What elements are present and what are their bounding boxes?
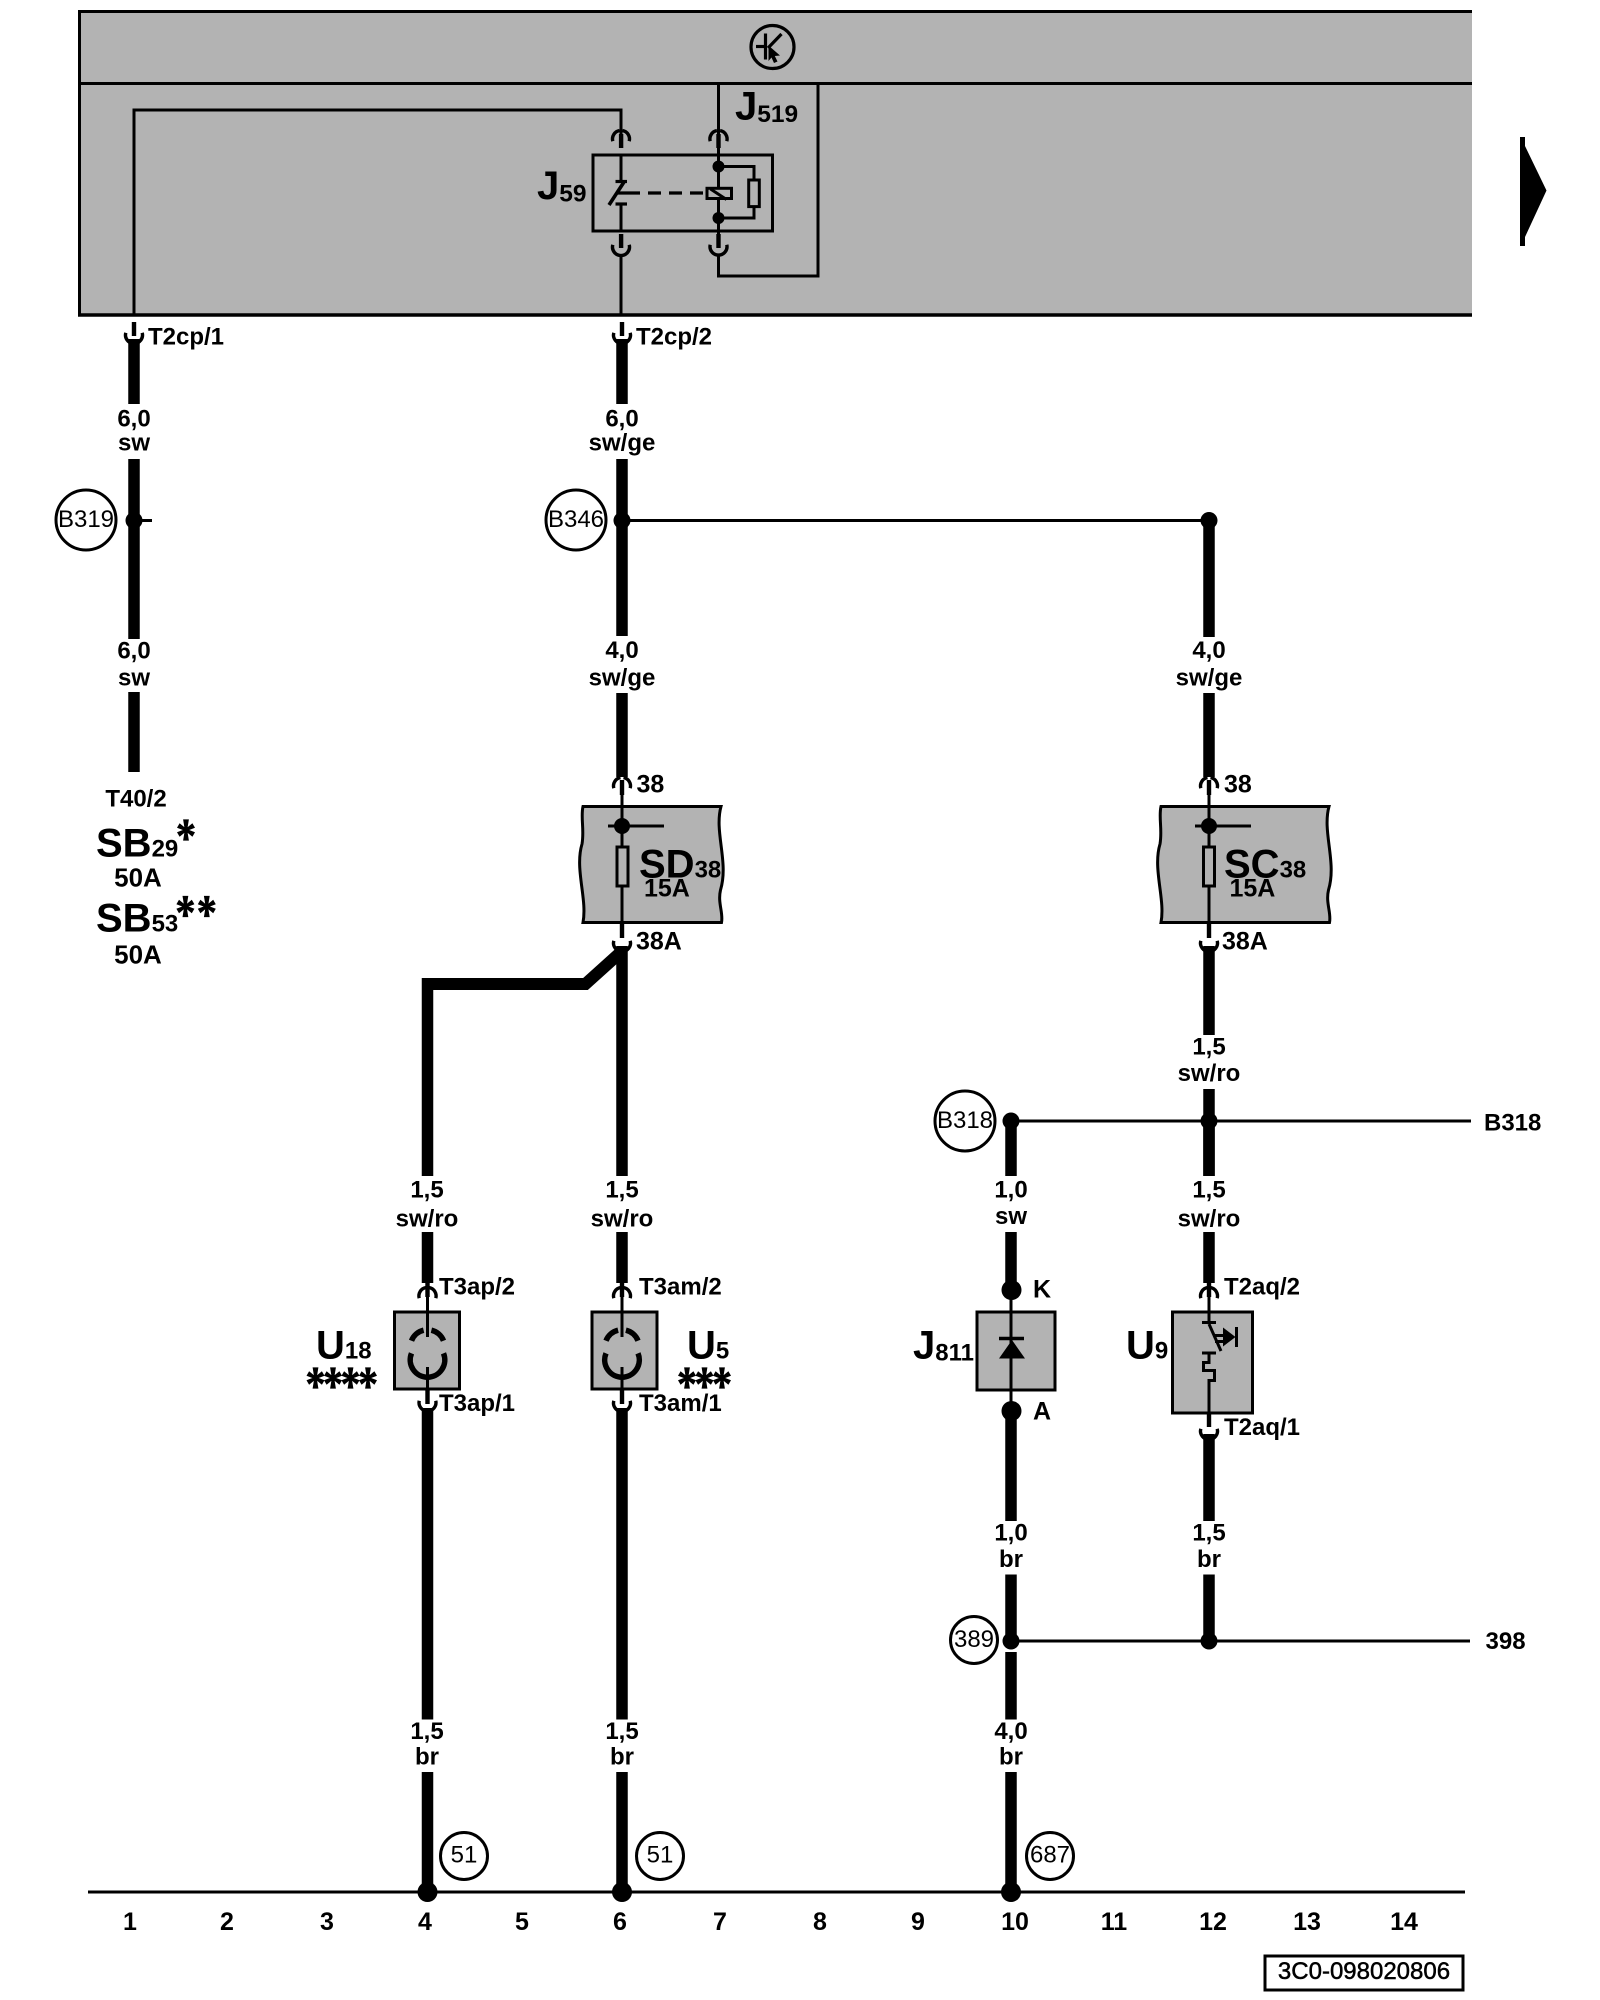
svg-text:sw/ge: sw/ge: [1176, 665, 1243, 692]
star marks: [177, 819, 195, 840]
svg-text:T2aq/1: T2aq/1: [1224, 1414, 1300, 1441]
svg-text:1: 1: [123, 1908, 137, 1936]
star marks: [678, 1367, 731, 1388]
wire 1,5 sw/ro (right column upper): [1203, 946, 1215, 1035]
fuse panel SC38: [1158, 807, 1332, 923]
diode J811 box: [977, 1312, 1055, 1390]
svg-text:A: A: [1033, 1398, 1051, 1426]
connection 389: [951, 1617, 998, 1664]
wire B318 across to right edge: [1011, 1120, 1471, 1123]
connector T2aq/1: [1201, 1413, 1301, 1441]
wire 6,0 sw (lower, left column): [128, 459, 140, 639]
panel divider line: [78, 82, 1472, 85]
connector T3am/1: [614, 1390, 722, 1417]
svg-text:1,5: 1,5: [1192, 1520, 1225, 1547]
svg-text:1,5: 1,5: [410, 1718, 443, 1745]
terminal 38A connector (SD38): [614, 923, 682, 956]
J519 enclosure outline (right side): [719, 84, 819, 277]
T2cp/1 connector: [126, 322, 225, 351]
svg-text:4,0: 4,0: [994, 1718, 1027, 1745]
svg-text:687: 687: [1030, 1842, 1070, 1869]
star marks: [307, 1367, 378, 1388]
pump motor U5 box: [592, 1312, 657, 1389]
wires down to motors: [422, 1232, 434, 1283]
wire J519 feed down to relay coil connector: [717, 84, 720, 136]
coil junction dots: [713, 161, 725, 173]
ground 51 (left): [441, 1833, 488, 1880]
relay switch contact: [609, 155, 627, 231]
svg-text:6: 6: [613, 1908, 627, 1936]
svg-text:T3am/1: T3am/1: [639, 1390, 722, 1417]
svg-text:51: 51: [647, 1842, 674, 1869]
svg-text:sw/ro: sw/ro: [396, 1206, 459, 1233]
wire 38A down (middle column): [616, 946, 628, 1176]
svg-text:T3ap/1: T3ap/1: [439, 1390, 515, 1417]
svg-text:398: 398: [1486, 1628, 1526, 1655]
connection B319: [56, 490, 116, 550]
wire B346 to right column: [622, 519, 1209, 522]
wire 389 node to right edge (398): [1011, 1640, 1470, 1643]
svg-text:12: 12: [1199, 1908, 1227, 1936]
svg-text:sw: sw: [118, 430, 150, 457]
connector pin at relay switch top: [613, 131, 630, 148]
svg-text:50A: 50A: [114, 863, 162, 893]
svg-text:13: 13: [1293, 1908, 1321, 1936]
svg-text:1,5: 1,5: [410, 1177, 443, 1204]
svg-text:sw/ge: sw/ge: [589, 430, 656, 457]
K symbol (bus icon): [751, 26, 794, 69]
svg-text:B346: B346: [548, 506, 604, 533]
svg-text:1,0: 1,0: [994, 1177, 1027, 1204]
coil shunt resistor: [719, 167, 755, 181]
terminal 38 connector (SD38): [614, 771, 665, 799]
svg-text:B319: B319: [58, 506, 114, 533]
connector T2aq/2: [1201, 1274, 1301, 1301]
svg-text:sw/ro: sw/ro: [1178, 1206, 1241, 1233]
U9 column: wire junction at B318 down to T2aq/2: [1203, 1121, 1215, 1176]
svg-text:br: br: [999, 1744, 1023, 1771]
pump motor U18 box: [395, 1312, 460, 1389]
svg-text:T3ap/2: T3ap/2: [439, 1274, 515, 1301]
connection B318: [935, 1091, 995, 1151]
svg-text:38: 38: [1224, 771, 1252, 799]
node A: [1002, 1401, 1022, 1421]
connector T3ap/2: [419, 1274, 515, 1301]
fuse panel SD38: [580, 807, 724, 923]
svg-text:B318: B318: [937, 1107, 993, 1134]
terminal 38 connector (SC38): [1201, 771, 1252, 799]
svg-text:SB29: SB29: [96, 822, 178, 866]
star marks: [176, 896, 215, 917]
svg-text:5: 5: [515, 1908, 529, 1936]
svg-text:6,0: 6,0: [605, 406, 638, 433]
svg-text:8: 8: [813, 1908, 827, 1936]
diode symbol: [999, 1337, 1024, 1341]
svg-text:51: 51: [451, 1842, 478, 1869]
svg-text:11: 11: [1101, 1908, 1128, 1936]
connector T3ap/1: [419, 1390, 515, 1417]
wire 1,0 sw (J811 column): [1005, 1121, 1017, 1176]
svg-text:38: 38: [637, 771, 665, 799]
svg-text:14: 14: [1390, 1908, 1418, 1936]
branch wire to U18 (diagonal + horizontal + vertical): [427, 952, 621, 984]
svg-text:B318: B318: [1484, 1110, 1541, 1137]
svg-text:7: 7: [713, 1908, 727, 1936]
svg-text:U18: U18: [316, 1324, 372, 1368]
wire to T40/2: [128, 692, 140, 772]
svg-text:T40/2: T40/2: [105, 786, 166, 813]
connector at relay coil bottom: [710, 234, 727, 255]
wire 6,0 sw (upper, left column): [128, 339, 140, 404]
svg-text:br: br: [610, 1744, 634, 1771]
svg-text:U5: U5: [687, 1324, 729, 1368]
socket U9 box: [1173, 1312, 1253, 1413]
svg-text:1,5: 1,5: [605, 1177, 638, 1204]
motor symbol U5: [605, 1330, 640, 1377]
svg-text:1,5: 1,5: [1192, 1034, 1225, 1061]
svg-text:2: 2: [220, 1908, 234, 1936]
svg-text:4: 4: [418, 1908, 432, 1936]
wire 1,5 br (U9 column): [1203, 1434, 1215, 1521]
wire from T2cp/1 up and across to relay switch leg: [134, 110, 621, 316]
svg-text:sw: sw: [995, 1203, 1027, 1230]
svg-text:J811: J811: [913, 1324, 974, 1368]
svg-text:15A: 15A: [644, 875, 690, 903]
svg-text:15A: 15A: [1230, 875, 1276, 903]
connector pin at relay coil top: [710, 131, 727, 148]
svg-text:389: 389: [954, 1626, 994, 1653]
svg-text:T2cp/1: T2cp/1: [148, 324, 224, 351]
svg-text:br: br: [1197, 1546, 1221, 1573]
svg-text:4,0: 4,0: [605, 637, 638, 664]
svg-text:3C0-098020806: 3C0-098020806: [1278, 1958, 1450, 1985]
wire 4,0 sw/ge to fuse SD38: [616, 693, 628, 777]
svg-text:3: 3: [320, 1908, 334, 1936]
ground 687: [1027, 1833, 1074, 1880]
svg-text:T2cp/2: T2cp/2: [636, 324, 712, 351]
svg-text:10: 10: [1001, 1908, 1029, 1936]
svg-text:T3am/2: T3am/2: [639, 1274, 722, 1301]
svg-text:U9: U9: [1126, 1324, 1168, 1368]
svg-text:4,0: 4,0: [1192, 637, 1225, 664]
wire 1,0 br: [1005, 1418, 1017, 1521]
svg-text:9: 9: [911, 1908, 925, 1936]
fuse symbol SC38: [1204, 847, 1215, 886]
terminal 38A connector (SC38): [1200, 923, 1267, 956]
svg-text:sw/ro: sw/ro: [591, 1206, 654, 1233]
svg-text:br: br: [415, 1744, 439, 1771]
motor symbol U18: [410, 1330, 445, 1377]
node K: [1002, 1280, 1022, 1300]
svg-text:1,5: 1,5: [605, 1718, 638, 1745]
ground rail: [88, 1891, 1465, 1894]
fuse symbol SD38: [617, 847, 628, 886]
connector T3am/2: [614, 1274, 722, 1301]
continuation arrow (right edge): [1520, 137, 1547, 246]
svg-text:50A: 50A: [114, 940, 162, 970]
relay J59 box: [593, 155, 773, 231]
svg-text:sw/ro: sw/ro: [1178, 1060, 1241, 1087]
svg-text:sw/ge: sw/ge: [589, 665, 656, 692]
control unit panel (top gray band): [78, 10, 1472, 316]
U9 internal symbol (lighter contact + arrow + heating element): [1202, 1297, 1237, 1413]
svg-text:T2aq/2: T2aq/2: [1224, 1274, 1300, 1301]
T2cp/2 connector: [614, 322, 713, 351]
mechanical link (dashed): [616, 191, 703, 194]
svg-text:K: K: [1033, 1276, 1051, 1304]
connector at relay switch bottom: [613, 234, 630, 256]
svg-text:6,0: 6,0: [117, 638, 150, 665]
connection B346: [546, 490, 606, 550]
svg-text:1,5: 1,5: [1192, 1177, 1225, 1204]
part number box: [1265, 1956, 1463, 1990]
svg-text:1,0: 1,0: [994, 1520, 1027, 1547]
svg-text:br: br: [999, 1546, 1023, 1573]
svg-text:38A: 38A: [636, 928, 682, 956]
ground 51 (middle): [637, 1833, 684, 1880]
relay coil: [707, 188, 732, 198]
svg-text:sw: sw: [118, 665, 150, 692]
wires 1,5 br (left and middle): [422, 1408, 434, 1720]
right column: wire 4,0 sw/ge from B346 line down: [1201, 512, 1218, 529]
wire 6,0 sw/ge (middle column): [616, 339, 628, 404]
svg-text:6,0: 6,0: [117, 406, 150, 433]
track numbers: [123, 1908, 1418, 1936]
svg-text:38A: 38A: [1222, 928, 1268, 956]
svg-text:SB53: SB53: [96, 897, 178, 941]
